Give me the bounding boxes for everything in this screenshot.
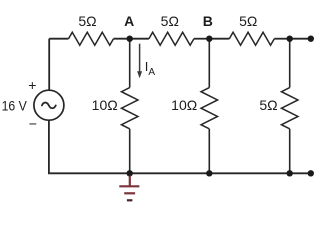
svg-text:5Ω: 5Ω: [78, 13, 96, 29]
wire: left rail top (corner to source): [48, 39, 50, 91]
svg-text:IA: IA: [145, 59, 156, 78]
current arrow IA: [137, 44, 142, 79]
node B junction dot: [206, 36, 212, 42]
wire: top right stub to terminal: [290, 38, 311, 40]
voltage source V1 16V circle: [34, 90, 64, 120]
wire: R4 bottom stem: [129, 129, 131, 173]
resistor R3 5ohm horizontal: [229, 32, 274, 45]
wire: top rail node B to R3: [209, 38, 229, 40]
node B bottom junction dot: [206, 170, 212, 176]
wire: top rail R1 to node A: [114, 38, 130, 40]
node top-right junction dot: [287, 36, 293, 42]
wire: top rail R2 to node B: [194, 38, 209, 40]
svg-text:+: +: [28, 77, 36, 93]
sine symbol inside source: [42, 103, 56, 109]
wire: R6 bottom stem: [289, 129, 291, 173]
resistor R4 10ohm vertical at A: [121, 88, 138, 129]
node bottom-right terminal dot: [308, 170, 314, 176]
svg-text:10Ω: 10Ω: [171, 97, 197, 113]
svg-text:16 V: 16 V: [2, 97, 28, 113]
wire: left rail bottom (source to bottom rail): [48, 120, 50, 173]
resistor R5 10ohm vertical at B: [201, 88, 218, 129]
resistor R6 5ohm vertical right: [281, 88, 298, 129]
wire: R5 bottom stem: [208, 129, 210, 173]
wire: bottom rail: [49, 172, 311, 174]
ground: [119, 176, 139, 201]
wire: node A down-stem: [129, 39, 131, 88]
svg-text:10Ω: 10Ω: [92, 97, 118, 113]
svg-text:−: −: [29, 115, 37, 131]
node A junction dot: [127, 36, 133, 42]
wire: node B down-stem: [208, 39, 210, 88]
resistor R2 5ohm horizontal: [149, 32, 194, 45]
wire: right junction down-stem: [289, 39, 291, 88]
wire: top rail R3 to right junction: [274, 38, 289, 40]
svg-text:5Ω: 5Ω: [259, 97, 277, 113]
node bottom-right junction dot: [287, 170, 293, 176]
svg-text:A: A: [124, 13, 134, 29]
resistor R1 5ohm horizontal: [69, 32, 114, 45]
svg-text:B: B: [203, 13, 213, 29]
wire: top rail node A to R2: [130, 38, 149, 40]
svg-text:5Ω: 5Ω: [239, 13, 257, 29]
node ground junction dot: [127, 170, 133, 176]
wire: top rail left segment: [49, 38, 68, 40]
node top-right terminal dot: [308, 36, 314, 42]
svg-text:5Ω: 5Ω: [161, 13, 179, 29]
